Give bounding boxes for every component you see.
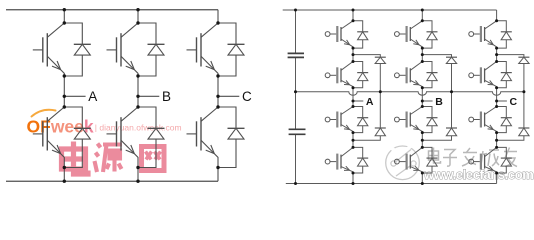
watermark: character 网 [142,147,165,171]
wire: DC+ top rail (left circuit) [6,9,218,11]
IGBT Q2 leg C (right circuit) [469,62,497,88]
IGBT Q1 leg B (right circuit) [395,21,423,48]
svg-text:www.elecfans.com: www.elecfans.com [423,167,533,182]
wire: phase C output stub [218,95,239,97]
diode (antiparallel) of Q3 leg C (right circuit) [497,107,512,133]
clamp diode D5 leg C (upper) [497,55,530,128]
diode (antiparallel) of upper leg C (left circuit) [218,23,245,76]
wire: neutral (midpoint) line with hops over legs [296,92,524,95]
IGBT upper leg B (left circuit) [107,23,139,76]
node: leg B junction dots [136,8,139,183]
IGBT upper leg C (left circuit) [187,23,219,76]
IGBT Q2 leg B (right circuit) [395,62,423,88]
IGBT Q2 leg A (right circuit) [325,62,353,88]
IGBT lower leg B (left circuit) [107,107,139,168]
diode (antiparallel) of lower leg C (left circuit) [218,107,245,168]
wire: phase A output stub (right circuit) [353,100,363,102]
wire: DC- bottom rail (right circuit) [286,183,497,185]
wire: phase B mid segment [137,76,139,107]
node: DC bus junction dots [294,9,297,186]
wire: leg B top feed [137,10,139,23]
node: leg B junction dots (right circuit) [421,9,453,186]
wire: phase B output stub (right circuit) [422,100,432,102]
watermark: character 源 [95,144,123,173]
wire: phase A output stub [64,95,85,97]
svg-text:| dianyuan.ofweek.com: | dianyuan.ofweek.com [95,122,182,132]
diode (antiparallel) of Q1 leg C (right circuit) [497,21,512,48]
wire: leg A bottom feed [63,168,65,182]
diode (antiparallel) of upper leg B (left circuit) [138,23,165,76]
diode (antiparallel) of Q4 leg C (right circuit) [497,147,512,173]
node: leg A junction dots [63,8,66,183]
node: leg C junction dots (right circuit) [495,19,525,174]
wire: DC- bottom rail (left circuit) [6,180,218,182]
diode (antiparallel) of Q2 leg B (right circuit) [422,62,437,88]
clamp diode D5 leg B (upper) [422,55,457,128]
wire: DC+ top rail (right circuit) [283,9,497,11]
svg-text:C: C [242,89,252,104]
wire: DC bus vertical [295,10,297,184]
IGBT Q1 leg C (right circuit) [469,21,497,48]
wire: leg C bottom feed [217,168,219,182]
svg-text:A: A [88,89,97,104]
diode (antiparallel) of Q4 leg A (right circuit) [353,147,368,173]
wire: leg B bottom feed [137,168,139,182]
diode (antiparallel) of Q2 leg C (right circuit) [497,62,512,88]
svg-text:C: C [510,96,518,108]
wire: leg C top feed [217,10,219,23]
IGBT Q3 leg B (right circuit) [395,107,423,133]
diode (antiparallel) of lower leg B (left circuit) [138,107,165,168]
wire: phase C mid segment [217,76,219,107]
svg-text:B: B [162,89,171,104]
diode (antiparallel) of Q2 leg A (right circuit) [353,62,368,88]
watermark: elecfans circle logo [386,144,420,180]
diode (antiparallel) of Q3 leg A (right circuit) [353,107,368,133]
IGBT Q1 leg A (right circuit) [325,21,353,48]
clamp diode D5 leg A (upper) [353,55,386,128]
watermark: characters 电子发烧友 [429,148,518,167]
IGBT Q3 leg C (right circuit) [469,107,497,133]
wire: leg C spine segments (right circuit) [496,10,498,184]
IGBT Q3 leg A (right circuit) [325,107,353,133]
diode (antiparallel) of Q3 leg B (right circuit) [422,107,437,133]
diode (antiparallel) of Q4 leg B (right circuit) [422,147,437,173]
wire: phase C output stub (right circuit) [497,100,507,102]
wire: phase A mid segment [63,76,65,107]
node: leg C junction dots [216,21,219,169]
diode (antiparallel) of lower leg A (left circuit) [64,107,91,168]
capacitor C2 (lower DC-link) [289,129,306,134]
clamp diode D6 leg A (lower) [353,128,386,140]
IGBT upper leg A (left circuit) [33,23,65,76]
IGBT lower leg A (left circuit) [33,107,65,168]
wire: leg A top feed [63,10,65,23]
wire: phase B output stub [138,95,159,97]
node: leg A junction dots (right circuit) [352,9,382,186]
watermark: OFweek orange swoosh [32,110,56,117]
watermark: character 电 [62,142,89,175]
IGBT lower leg C (left circuit) [187,107,219,168]
IGBT Q4 leg B (right circuit) [395,147,423,173]
svg-text:A: A [366,96,374,108]
clamp diode D6 leg C (lower) [497,128,530,140]
IGBT Q4 leg C (right circuit) [469,147,497,173]
IGBT Q4 leg A (right circuit) [325,147,353,173]
wire: leg B spine segments (right circuit) [421,10,423,184]
svg-text:B: B [435,96,443,108]
diode (antiparallel) of Q1 leg B (right circuit) [422,21,437,48]
clamp diode D6 leg B (lower) [422,128,457,140]
wire: leg A spine segments (right circuit) [352,10,354,184]
diode (antiparallel) of upper leg A (left circuit) [64,23,91,76]
capacitor C1 (upper DC-link) [288,53,304,57]
diode (antiparallel) of Q1 leg A (right circuit) [353,21,368,48]
